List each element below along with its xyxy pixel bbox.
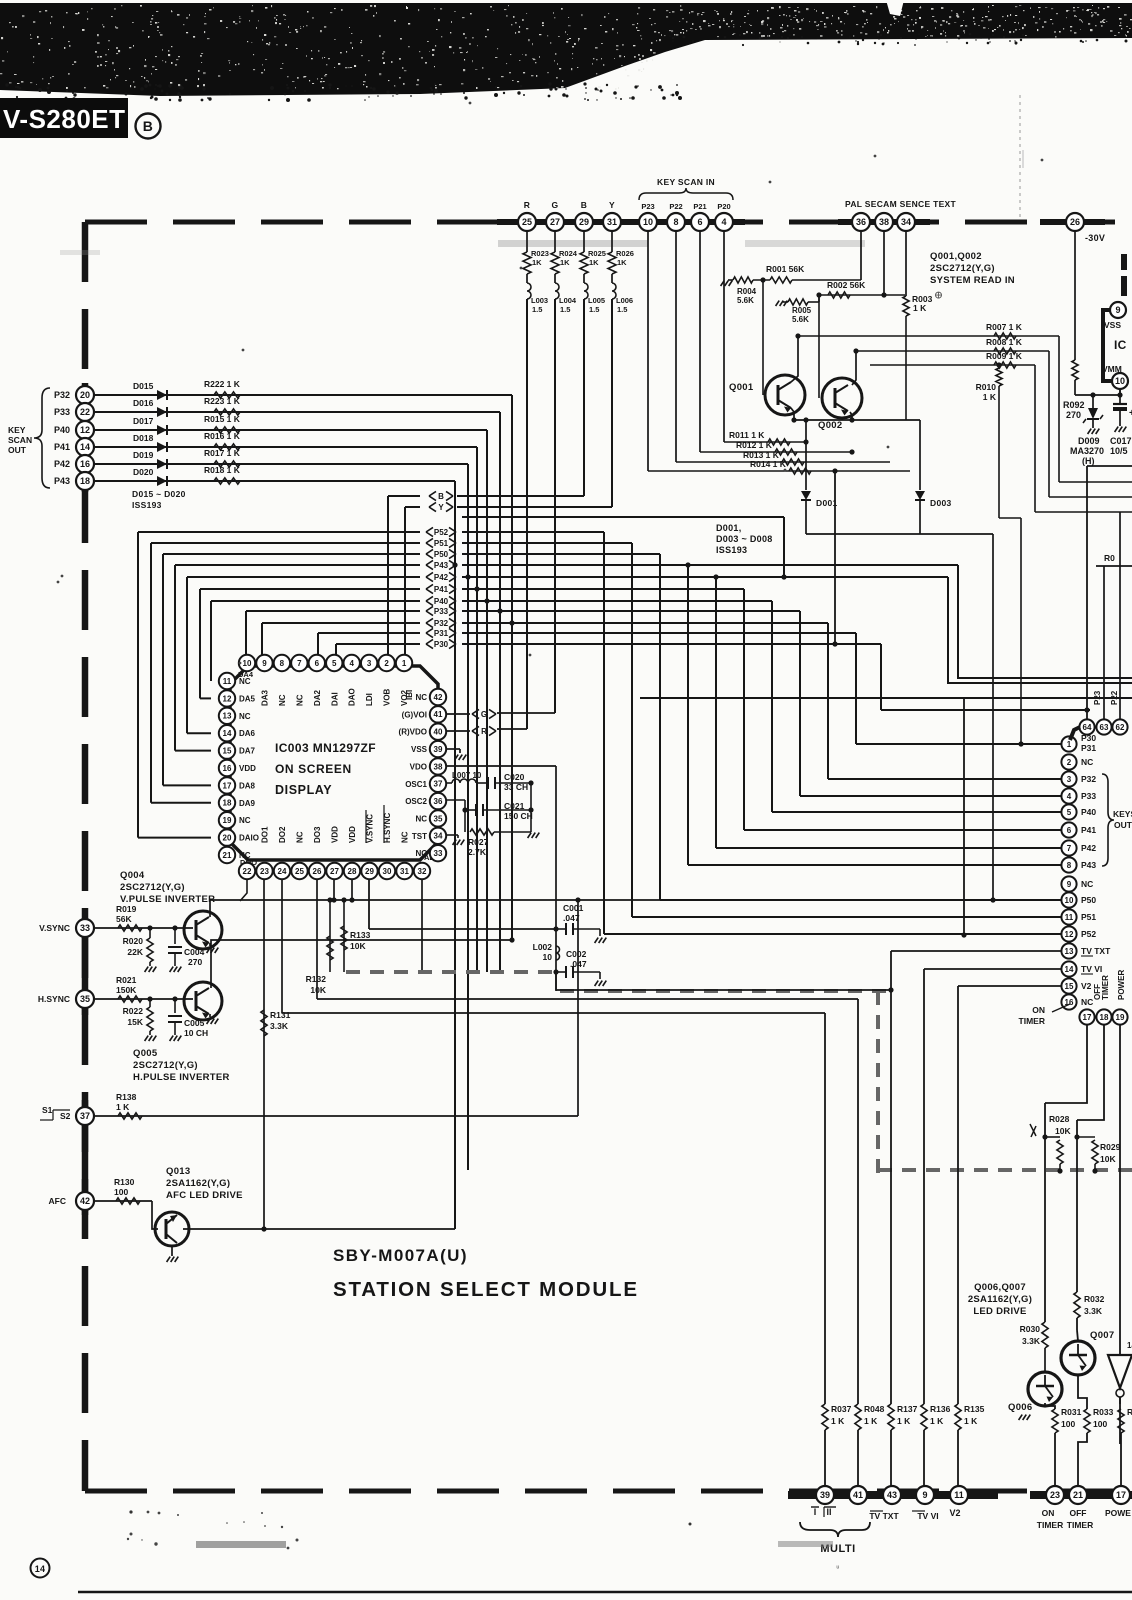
svg-text:DAI: DAI xyxy=(330,692,339,706)
svg-text:LDI: LDI xyxy=(365,693,374,706)
svg-text:DAO: DAO xyxy=(348,688,357,706)
svg-text:TV VI: TV VI xyxy=(917,1511,938,1521)
svg-text:Q004: Q004 xyxy=(120,870,145,881)
svg-text:R028: R028 xyxy=(1049,1114,1070,1124)
svg-text:2SC2712(Y,G): 2SC2712(Y,G) xyxy=(133,1060,198,1071)
svg-text:VSS: VSS xyxy=(411,745,428,754)
svg-text:R: R xyxy=(524,200,530,210)
svg-text:P52: P52 xyxy=(434,528,449,537)
svg-text:19: 19 xyxy=(223,816,232,825)
svg-text:DA9: DA9 xyxy=(239,799,256,808)
svg-text:R004: R004 xyxy=(737,287,757,296)
svg-text:R001 56K: R001 56K xyxy=(766,264,805,274)
svg-text:36: 36 xyxy=(856,217,866,227)
svg-text:C001: C001 xyxy=(563,903,584,913)
svg-text:D019: D019 xyxy=(133,450,154,460)
svg-text:R133: R133 xyxy=(350,930,371,940)
svg-text:TIMER: TIMER xyxy=(1019,1016,1045,1026)
svg-text:D001,: D001, xyxy=(716,523,742,533)
svg-text:R0: R0 xyxy=(1104,553,1115,563)
svg-text:3: 3 xyxy=(367,659,372,668)
svg-text:R032: R032 xyxy=(1084,1294,1105,1304)
svg-text:2SA1162(Y,G): 2SA1162(Y,G) xyxy=(968,1294,1032,1305)
svg-text:24: 24 xyxy=(278,867,287,876)
svg-text:Q005: Q005 xyxy=(133,1048,158,1059)
svg-text:37: 37 xyxy=(434,780,443,789)
svg-text:10/5: 10/5 xyxy=(1110,446,1128,456)
svg-text:V-S280ET: V-S280ET xyxy=(3,104,126,134)
svg-text:IBI: IBI xyxy=(405,690,414,700)
svg-text:R: R xyxy=(481,727,487,736)
svg-text:16: 16 xyxy=(80,459,90,469)
svg-text:D016: D016 xyxy=(133,398,154,408)
svg-text:Q006: Q006 xyxy=(1008,1402,1032,1413)
svg-text:R132: R132 xyxy=(306,974,327,984)
svg-text:26: 26 xyxy=(1070,217,1080,227)
svg-text:11: 11 xyxy=(1065,913,1074,922)
svg-text:19: 19 xyxy=(1116,1013,1125,1022)
svg-text:DA6: DA6 xyxy=(239,729,256,738)
svg-text:D020: D020 xyxy=(133,467,154,477)
svg-text:P51: P51 xyxy=(434,539,449,548)
svg-text:27: 27 xyxy=(330,867,339,876)
svg-text:36: 36 xyxy=(434,797,443,806)
svg-text:8: 8 xyxy=(1067,861,1072,870)
svg-text:25: 25 xyxy=(295,867,304,876)
svg-text:39: 39 xyxy=(434,745,443,754)
svg-text:14: 14 xyxy=(35,1564,46,1574)
svg-text:40: 40 xyxy=(434,728,443,737)
svg-text:R014 1 K: R014 1 K xyxy=(750,459,787,469)
svg-text:2: 2 xyxy=(1067,758,1072,767)
svg-text:27: 27 xyxy=(550,217,560,227)
svg-text:3.3K: 3.3K xyxy=(1084,1306,1103,1316)
svg-text:R002 56K: R002 56K xyxy=(827,280,866,290)
svg-text:B: B xyxy=(581,200,587,210)
svg-text:P43: P43 xyxy=(434,561,449,570)
svg-text:17: 17 xyxy=(1083,1013,1092,1022)
svg-text:C020: C020 xyxy=(504,772,525,782)
svg-text:R018 1 K: R018 1 K xyxy=(204,465,241,475)
svg-text:ON SCREEN: ON SCREEN xyxy=(275,762,352,776)
svg-text:P21: P21 xyxy=(693,202,706,211)
svg-text:Y: Y xyxy=(438,503,444,512)
svg-text:22: 22 xyxy=(243,867,252,876)
svg-text:C002: C002 xyxy=(566,949,587,959)
svg-text:Q001,Q002: Q001,Q002 xyxy=(930,251,982,262)
svg-text:P32: P32 xyxy=(434,619,449,628)
svg-text:PAL SECAM SENCE TEXT: PAL SECAM SENCE TEXT xyxy=(845,199,957,209)
svg-text:TV TXT: TV TXT xyxy=(1081,946,1111,956)
svg-text:1 K: 1 K xyxy=(930,1416,944,1426)
svg-text:R011 1 K: R011 1 K xyxy=(729,430,765,440)
svg-text:OSC2: OSC2 xyxy=(405,797,427,806)
svg-text:1.5: 1.5 xyxy=(617,305,627,314)
svg-text:R007 1 K: R007 1 K xyxy=(986,322,1023,332)
svg-text:R010: R010 xyxy=(976,382,997,392)
svg-text:NC: NC xyxy=(401,831,410,843)
svg-text:L003: L003 xyxy=(531,296,548,305)
svg-text:P31: P31 xyxy=(1081,743,1096,753)
svg-text:OSC1: OSC1 xyxy=(405,780,427,789)
svg-text:41: 41 xyxy=(853,1490,863,1500)
svg-text:35: 35 xyxy=(434,814,443,823)
svg-text:63: 63 xyxy=(1100,723,1109,732)
svg-text:1: 1 xyxy=(402,659,407,668)
svg-text:(H): (H) xyxy=(1082,456,1095,466)
svg-text:6: 6 xyxy=(1067,826,1072,835)
svg-text:⨁: ⨁ xyxy=(935,291,942,299)
svg-text:R0: R0 xyxy=(1127,1407,1132,1417)
svg-text:R131: R131 xyxy=(270,1010,291,1020)
svg-text:10K: 10K xyxy=(350,941,366,951)
svg-text:DA3: DA3 xyxy=(260,689,269,706)
svg-text:DA2: DA2 xyxy=(313,689,322,706)
svg-text:NC: NC xyxy=(1081,879,1093,889)
svg-text:6: 6 xyxy=(697,217,702,227)
svg-text:R005: R005 xyxy=(792,306,812,315)
svg-text:4: 4 xyxy=(1067,792,1072,801)
svg-text:33: 33 xyxy=(434,849,443,858)
svg-text:NC: NC xyxy=(295,694,304,706)
svg-text:KEY SCAN IN: KEY SCAN IN xyxy=(657,177,715,187)
svg-text:13: 13 xyxy=(1065,947,1074,956)
svg-text:20: 20 xyxy=(80,390,90,400)
svg-text:R030: R030 xyxy=(1020,1324,1041,1334)
svg-text:9: 9 xyxy=(1115,305,1120,315)
svg-text:P41: P41 xyxy=(54,442,70,452)
svg-text:L004: L004 xyxy=(559,296,577,305)
svg-text:VDD: VDD xyxy=(239,764,256,773)
svg-text:SYSTEM READ IN: SYSTEM READ IN xyxy=(930,275,1015,286)
svg-text:6: 6 xyxy=(315,659,320,668)
svg-text:R033: R033 xyxy=(1093,1407,1114,1417)
svg-text:31: 31 xyxy=(607,217,617,227)
svg-text:7: 7 xyxy=(297,659,302,668)
svg-text:Q001: Q001 xyxy=(729,382,754,393)
svg-text:MA3270: MA3270 xyxy=(1070,446,1104,456)
svg-text:14: 14 xyxy=(1127,1341,1132,1350)
svg-text:17: 17 xyxy=(1116,1490,1126,1500)
svg-text:5: 5 xyxy=(332,659,337,668)
svg-text:DA8: DA8 xyxy=(239,781,256,790)
svg-text:IC: IC xyxy=(1114,338,1127,352)
svg-text:20: 20 xyxy=(223,833,232,842)
svg-text:41: 41 xyxy=(434,710,443,719)
svg-text:R023: R023 xyxy=(531,249,549,258)
svg-text:10: 10 xyxy=(543,952,553,962)
svg-text:29: 29 xyxy=(579,217,589,227)
svg-text:1.5: 1.5 xyxy=(589,305,599,314)
svg-text:270: 270 xyxy=(188,957,202,967)
svg-text:43: 43 xyxy=(887,1490,897,1500)
svg-text:3: 3 xyxy=(1067,775,1072,784)
svg-text:P40: P40 xyxy=(1081,807,1096,817)
svg-text:5.6K: 5.6K xyxy=(737,296,754,305)
svg-text:270: 270 xyxy=(1066,410,1081,420)
svg-text:23: 23 xyxy=(260,867,269,876)
svg-text:TIMER: TIMER xyxy=(1101,975,1110,1000)
svg-text:P20: P20 xyxy=(717,202,730,211)
svg-text:P32: P32 xyxy=(1081,774,1096,784)
svg-text:4: 4 xyxy=(721,217,726,227)
svg-text:R027: R027 xyxy=(468,837,489,847)
svg-text:1K: 1K xyxy=(589,258,599,267)
svg-text:38: 38 xyxy=(879,217,889,227)
svg-text:D015: D015 xyxy=(133,381,154,391)
svg-text:H.PULSE INVERTER: H.PULSE INVERTER xyxy=(133,1072,230,1083)
svg-text:P42: P42 xyxy=(54,459,70,469)
svg-text:OUT: OUT xyxy=(8,445,27,455)
svg-text:SCAN: SCAN xyxy=(8,435,32,445)
svg-text:14: 14 xyxy=(1065,965,1074,974)
svg-text:33 CH: 33 CH xyxy=(504,782,528,792)
svg-text:OFF: OFF xyxy=(1070,1508,1087,1518)
svg-text:100: 100 xyxy=(1093,1419,1107,1429)
svg-text:P33: P33 xyxy=(1081,791,1096,801)
svg-text:9: 9 xyxy=(262,659,267,668)
svg-text:1 K: 1 K xyxy=(116,1102,130,1112)
svg-text:VDD: VDD xyxy=(331,826,340,843)
svg-text:39: 39 xyxy=(820,1490,830,1500)
svg-text:8: 8 xyxy=(280,659,285,668)
svg-text:DO3: DO3 xyxy=(313,826,322,843)
svg-text:R138: R138 xyxy=(116,1092,137,1102)
svg-text:100: 100 xyxy=(1061,1419,1075,1429)
svg-text:1.5: 1.5 xyxy=(532,305,542,314)
svg-text:II: II xyxy=(826,1507,831,1517)
svg-text:V.SYNC: V.SYNC xyxy=(39,923,70,933)
svg-text:KEYS: KEYS xyxy=(1113,809,1132,819)
svg-text:32: 32 xyxy=(418,867,427,876)
svg-text:1 K: 1 K xyxy=(964,1416,978,1426)
svg-text:18: 18 xyxy=(223,799,232,808)
svg-text:Q006,Q007: Q006,Q007 xyxy=(974,1282,1026,1293)
svg-text:V.SYNC: V.SYNC xyxy=(366,814,375,843)
svg-text:P32: P32 xyxy=(54,390,70,400)
svg-text:11: 11 xyxy=(223,677,232,686)
svg-text:R015 1 K: R015 1 K xyxy=(204,414,241,424)
svg-text:ISS193: ISS193 xyxy=(716,545,747,555)
svg-text:42: 42 xyxy=(434,693,443,702)
svg-text:P33: P33 xyxy=(54,407,70,417)
svg-text:TIMER: TIMER xyxy=(1067,1520,1093,1530)
svg-text:S1: S1 xyxy=(42,1105,53,1115)
svg-text:P33: P33 xyxy=(434,607,449,616)
svg-text:10: 10 xyxy=(243,659,252,668)
svg-text:VSS: VSS xyxy=(1104,320,1121,330)
svg-text:1 K: 1 K xyxy=(831,1416,845,1426)
svg-text:(G)VOI: (G)VOI xyxy=(402,710,427,719)
svg-text:R022: R022 xyxy=(123,1006,144,1016)
svg-text:10K: 10K xyxy=(1055,1126,1071,1136)
svg-text:P42: P42 xyxy=(1081,843,1096,853)
svg-text:B: B xyxy=(143,118,153,134)
svg-text:30: 30 xyxy=(383,867,392,876)
svg-text:R025: R025 xyxy=(588,249,606,258)
svg-text:64: 64 xyxy=(1083,723,1092,732)
svg-text:KEY: KEY xyxy=(8,425,26,435)
svg-text:1 K: 1 K xyxy=(983,392,997,402)
svg-text:I: I xyxy=(814,1507,817,1517)
svg-text:P43: P43 xyxy=(54,476,70,486)
svg-text:25: 25 xyxy=(522,217,532,227)
svg-text:42: 42 xyxy=(80,1196,90,1206)
svg-text:150K: 150K xyxy=(116,985,137,995)
svg-text:L006: L006 xyxy=(616,296,633,305)
svg-text:SBY-M007A(U): SBY-M007A(U) xyxy=(333,1246,468,1265)
svg-text:TST: TST xyxy=(412,832,427,841)
svg-text:P51: P51 xyxy=(1081,912,1096,922)
svg-text:DAIO: DAIO xyxy=(239,834,259,843)
svg-text:D015 ~ D020: D015 ~ D020 xyxy=(132,489,186,499)
svg-text:P52: P52 xyxy=(1081,929,1096,939)
svg-text:15K: 15K xyxy=(127,1017,143,1027)
svg-text:-30V: -30V xyxy=(1085,233,1105,243)
svg-text:P23: P23 xyxy=(1093,690,1102,705)
svg-text:P23: P23 xyxy=(641,202,654,211)
svg-text:R012 1 K: R012 1 K xyxy=(736,440,773,450)
svg-text:22K: 22K xyxy=(127,947,143,957)
svg-text:STATION SELECT MODULE: STATION SELECT MODULE xyxy=(333,1278,639,1301)
svg-text:38: 38 xyxy=(434,762,443,771)
svg-text:1 K: 1 K xyxy=(913,303,927,313)
svg-text:Q007: Q007 xyxy=(1090,1330,1114,1341)
svg-text:21: 21 xyxy=(223,851,232,860)
svg-text:2SC2712(Y,G): 2SC2712(Y,G) xyxy=(930,263,995,274)
svg-text:S2: S2 xyxy=(60,1111,71,1121)
svg-text:R222 1 K: R222 1 K xyxy=(204,379,241,389)
svg-text:C017: C017 xyxy=(1110,436,1132,446)
svg-text:18: 18 xyxy=(80,476,90,486)
svg-text:15: 15 xyxy=(1065,982,1074,991)
svg-text:LED DRIVE: LED DRIVE xyxy=(973,1306,1026,1317)
svg-text:NC: NC xyxy=(239,712,251,721)
svg-text:D017: D017 xyxy=(133,416,154,426)
svg-text:R223 1 K: R223 1 K xyxy=(204,396,241,406)
svg-text:NC: NC xyxy=(239,677,251,686)
svg-text:L002: L002 xyxy=(533,942,553,952)
svg-text:NC: NC xyxy=(415,814,427,823)
svg-text:P30: P30 xyxy=(434,640,449,649)
svg-text:Q013: Q013 xyxy=(166,1166,190,1177)
svg-text:L005: L005 xyxy=(588,296,605,305)
svg-text:R135: R135 xyxy=(964,1404,985,1414)
svg-text:D009: D009 xyxy=(1078,436,1100,446)
svg-text:P50: P50 xyxy=(434,550,449,559)
svg-text:P41: P41 xyxy=(1081,825,1096,835)
svg-text:10K: 10K xyxy=(1100,1154,1116,1164)
svg-text:P40: P40 xyxy=(54,425,70,435)
svg-text:1K: 1K xyxy=(617,258,627,267)
svg-text:R048: R048 xyxy=(864,1404,885,1414)
svg-text:NC: NC xyxy=(239,816,251,825)
svg-text:(R)VDO: (R)VDO xyxy=(399,728,427,737)
svg-text:10: 10 xyxy=(1115,376,1125,386)
svg-text:P40: P40 xyxy=(434,597,449,606)
svg-text:P31: P31 xyxy=(434,629,449,638)
svg-text:22: 22 xyxy=(80,407,90,417)
svg-text:5.6K: 5.6K xyxy=(792,315,809,324)
svg-text:18: 18 xyxy=(1100,1013,1109,1022)
svg-text:P41: P41 xyxy=(434,585,449,594)
svg-text:34: 34 xyxy=(434,832,443,841)
svg-text:34: 34 xyxy=(901,217,911,227)
svg-text:33: 33 xyxy=(80,923,90,933)
svg-text:IC003 MN1297ZF: IC003 MN1297ZF xyxy=(275,741,376,755)
svg-text:12: 12 xyxy=(1065,930,1074,939)
svg-text:7: 7 xyxy=(1067,844,1072,853)
svg-text:16: 16 xyxy=(223,764,232,773)
svg-text:17: 17 xyxy=(223,781,232,790)
svg-text:R019: R019 xyxy=(116,904,137,914)
svg-text:62: 62 xyxy=(1116,723,1125,732)
svg-text:3.3K: 3.3K xyxy=(270,1021,289,1031)
svg-text:56K: 56K xyxy=(116,914,132,924)
svg-text:100: 100 xyxy=(114,1187,128,1197)
svg-text:H.SYNC: H.SYNC xyxy=(38,994,70,1004)
svg-text:DISPLAY: DISPLAY xyxy=(275,783,332,797)
svg-text:10: 10 xyxy=(643,217,653,227)
svg-text:10K: 10K xyxy=(310,985,326,995)
svg-text:R130: R130 xyxy=(114,1177,135,1187)
svg-text:DO2: DO2 xyxy=(278,826,287,843)
svg-text:C021: C021 xyxy=(504,801,525,811)
svg-text:NC: NC xyxy=(296,831,305,843)
svg-text:31: 31 xyxy=(400,867,409,876)
svg-text:3.3K: 3.3K xyxy=(1022,1336,1041,1346)
svg-text:R136: R136 xyxy=(930,1404,951,1414)
svg-text:2: 2 xyxy=(384,659,389,668)
svg-text:VDD: VDD xyxy=(348,826,357,843)
svg-text:2SA1162(Y,G): 2SA1162(Y,G) xyxy=(166,1178,230,1189)
svg-text:28: 28 xyxy=(348,867,357,876)
svg-text:VDO: VDO xyxy=(410,762,427,771)
svg-text:35: 35 xyxy=(80,994,90,1004)
svg-text:TV TXT: TV TXT xyxy=(869,1511,899,1521)
svg-text:NC: NC xyxy=(415,849,427,858)
svg-text:150 CH: 150 CH xyxy=(504,811,533,821)
svg-text:P22: P22 xyxy=(1110,690,1119,705)
svg-text:8: 8 xyxy=(673,217,678,227)
svg-text:ISS193: ISS193 xyxy=(132,500,162,510)
svg-text:G: G xyxy=(552,200,559,210)
svg-text:2.7K: 2.7K xyxy=(468,847,487,857)
svg-text:10 CH: 10 CH xyxy=(184,1028,208,1038)
svg-text:12: 12 xyxy=(80,425,90,435)
svg-text:R026: R026 xyxy=(616,249,634,258)
svg-text:TIMER: TIMER xyxy=(1037,1520,1063,1530)
svg-text:9: 9 xyxy=(922,1490,927,1500)
svg-text:R031: R031 xyxy=(1061,1407,1082,1417)
svg-text:13: 13 xyxy=(223,712,232,721)
svg-text:DA5: DA5 xyxy=(239,694,256,703)
svg-text:4: 4 xyxy=(349,659,354,668)
svg-text:R016 1 K: R016 1 K xyxy=(204,431,241,441)
svg-text:POWER: POWER xyxy=(1117,970,1126,1000)
svg-text:NC: NC xyxy=(415,693,427,702)
svg-text:9: 9 xyxy=(1067,880,1072,889)
svg-text:1.5: 1.5 xyxy=(560,305,570,314)
svg-text:G: G xyxy=(481,710,487,719)
svg-text:R092: R092 xyxy=(1063,400,1085,410)
svg-text:1K: 1K xyxy=(560,258,570,267)
svg-text:11: 11 xyxy=(954,1490,964,1500)
svg-text:D003 ~ D008: D003 ~ D008 xyxy=(716,534,773,544)
svg-text:NC: NC xyxy=(1081,997,1093,1007)
svg-text:1K: 1K xyxy=(532,258,542,267)
svg-text:POWE: POWE xyxy=(1105,1508,1131,1518)
